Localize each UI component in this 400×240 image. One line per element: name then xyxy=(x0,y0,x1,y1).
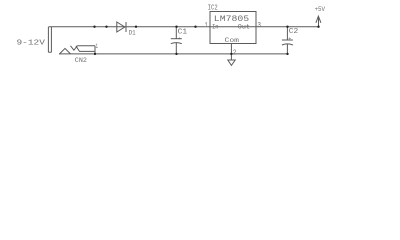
junction at CN2 switch net on top rail xyxy=(105,26,107,28)
connector CN2 jack barrel xyxy=(48,27,51,52)
supply +5V arrowhead xyxy=(316,16,321,23)
junction IC2 pin 1 wire xyxy=(194,26,196,28)
wire bottom ground rail xyxy=(59,53,289,55)
junction C1 to ground rail xyxy=(175,53,177,55)
svg-text:1: 1 xyxy=(205,22,208,30)
svg-text:2: 2 xyxy=(233,49,237,57)
wire IC2 pin 2 to ground xyxy=(230,44,232,61)
junction C2 to ground rail xyxy=(286,53,288,55)
connector CN2 tip notch xyxy=(71,46,78,50)
svg-text:Out: Out xyxy=(238,23,250,31)
regulator IC2 box xyxy=(210,12,256,44)
connector CN2 switch lever xyxy=(76,46,95,52)
svg-text:C2: C2 xyxy=(289,28,299,36)
diode D1 cathode bar xyxy=(125,22,127,32)
svg-text:+: + xyxy=(178,36,181,42)
junction at +5V tap xyxy=(317,26,319,28)
capacitor C2 bottom lead xyxy=(286,44,288,54)
ground symbol xyxy=(228,60,235,65)
svg-text:1: 1 xyxy=(96,43,99,50)
junction at CN2 pin1 net on top rail xyxy=(93,26,95,28)
svg-text:+5V: +5V xyxy=(315,6,326,13)
capacitor C1 top plate xyxy=(171,38,182,40)
capacitor C1 bottom lead xyxy=(175,43,177,54)
capacitor C1 top lead xyxy=(175,27,177,39)
svg-text:3: 3 xyxy=(257,22,261,30)
connector CN2 center-pin contact xyxy=(60,48,71,54)
svg-text:+: + xyxy=(288,36,291,42)
connector CN2 pin 1 post xyxy=(94,46,96,54)
svg-text:D1: D1 xyxy=(129,29,136,36)
capacitor C2 top lead xyxy=(286,27,288,40)
svg-text:IC2: IC2 xyxy=(208,4,218,12)
diode D1 triangle xyxy=(117,22,125,32)
svg-text:Com: Com xyxy=(225,37,240,45)
svg-text:9-12V: 9-12V xyxy=(17,39,46,47)
junction IC2 pin 2 to ground rail xyxy=(230,53,232,55)
supply +5V arrow shaft xyxy=(318,17,320,27)
junction CN2 post to ground rail xyxy=(94,53,96,55)
wire top positive rail xyxy=(48,26,318,28)
junction C1 to top rail xyxy=(175,26,177,28)
junction C2 to top rail xyxy=(286,26,288,28)
junction after diode D1 xyxy=(135,26,137,28)
capacitor C2 top plate xyxy=(282,39,293,41)
svg-text:CN2: CN2 xyxy=(75,57,87,64)
svg-text:In: In xyxy=(212,23,219,31)
connector CN2 tip line xyxy=(77,45,95,47)
capacitor C1 bottom plate xyxy=(171,43,182,44)
capacitor C2 bottom plate xyxy=(282,44,293,45)
